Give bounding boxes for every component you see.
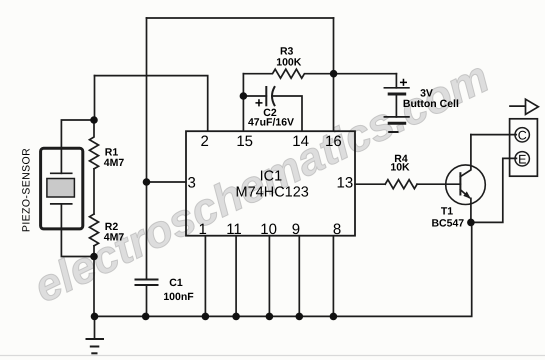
watermark electroschematics.com bbox=[27, 53, 495, 309]
pin numbers top bbox=[188, 133, 354, 238]
svg-text:+: + bbox=[399, 74, 407, 90]
wire piezo bottom bbox=[61, 229, 94, 257]
wire pin13 to R4 bbox=[355, 183, 385, 185]
wire collector to C terminal bbox=[471, 134, 516, 136]
svg-text:14: 14 bbox=[292, 133, 309, 150]
resistor R4 bbox=[385, 180, 417, 189]
svg-text:Button Cell: Button Cell bbox=[403, 98, 459, 110]
junction node R3/battery/pin16 bbox=[330, 70, 338, 78]
svg-text:100K: 100K bbox=[276, 56, 302, 68]
wire pin15 vertical bbox=[242, 74, 244, 131]
svg-text:47uF/16V: 47uF/16V bbox=[248, 116, 294, 128]
wire R2 to ground rail bbox=[93, 246, 95, 317]
wire top rail bbox=[147, 17, 334, 19]
svg-text:BC547: BC547 bbox=[431, 218, 464, 230]
svg-text:15: 15 bbox=[236, 133, 253, 150]
capacitor C1 bbox=[136, 279, 158, 281]
junction nodes ground rail bbox=[91, 313, 99, 321]
transistor collector bbox=[460, 135, 471, 177]
capacitor C2 left plate bbox=[265, 87, 267, 105]
svg-text:IC1: IC1 bbox=[260, 168, 283, 184]
svg-text:11: 11 bbox=[226, 221, 242, 238]
piezo internal bottom electrode bbox=[51, 203, 72, 205]
wire piezo top to box bbox=[61, 120, 94, 148]
wire left long vertical (top rail to C1) bbox=[146, 18, 148, 279]
ground symbol bbox=[94, 316, 96, 339]
capacitor C2 branch wire bbox=[243, 95, 266, 97]
svg-text:13: 13 bbox=[337, 175, 354, 192]
svg-text:10: 10 bbox=[260, 221, 277, 238]
connector box bbox=[510, 119, 538, 176]
svg-text:E: E bbox=[518, 152, 526, 166]
svg-text:C1: C1 bbox=[169, 277, 183, 289]
svg-text:10K: 10K bbox=[390, 161, 410, 173]
svg-text:+: + bbox=[255, 95, 263, 111]
IC1 body bbox=[186, 131, 355, 236]
svg-text:100nF: 100nF bbox=[163, 291, 194, 303]
junction node C2/pin15 bbox=[240, 92, 248, 100]
svg-text:PIEZO-SENSOR: PIEZO-SENSOR bbox=[21, 148, 33, 232]
ground rail bbox=[93, 222, 472, 316]
wire C2 to pin14 bbox=[272, 96, 302, 131]
svg-text:4M7: 4M7 bbox=[104, 157, 125, 169]
terminal E circle bbox=[515, 152, 529, 166]
piezo sensor body bbox=[41, 148, 83, 229]
junction node piezo/R2 bottom bbox=[90, 253, 98, 261]
capacitor C2 curved plate bbox=[272, 87, 275, 105]
svg-text:C: C bbox=[518, 128, 527, 142]
junction node pin3/C1 bbox=[143, 178, 151, 186]
wire piezo top branch bbox=[94, 76, 96, 120]
wire emitter down to junction bbox=[470, 198, 472, 222]
output arrow bbox=[510, 105, 526, 107]
transistor T1 circle bbox=[446, 165, 486, 205]
wire E terminal path bbox=[471, 158, 517, 222]
resistor R1 bbox=[90, 120, 99, 169]
battery 3V cell plates bbox=[384, 87, 409, 89]
svg-text:8: 8 bbox=[333, 221, 341, 238]
bottom border line bbox=[0, 355, 545, 357]
wire pin2 horizontal bbox=[95, 76, 208, 131]
transistor base bar bbox=[459, 173, 461, 194]
piezo internal top electrode bbox=[60, 148, 62, 173]
svg-text:9: 9 bbox=[292, 221, 300, 238]
wire C1 to ground rail bbox=[146, 285, 148, 316]
svg-text:T1: T1 bbox=[441, 206, 453, 218]
piezo crystal element bbox=[47, 179, 75, 198]
junction node emitter bbox=[467, 219, 475, 227]
battery feed wire bbox=[395, 74, 397, 88]
svg-text:1: 1 bbox=[199, 221, 207, 238]
wires IC bottom pins to ground rail bbox=[204, 236, 206, 317]
svg-text:16: 16 bbox=[325, 133, 342, 150]
resistor R3 with wires bbox=[243, 69, 396, 78]
battery minus dash bbox=[389, 131, 397, 133]
svg-text:M74HC123: M74HC123 bbox=[236, 184, 309, 200]
svg-text:2: 2 bbox=[201, 133, 209, 150]
wire R1 to R2 bbox=[93, 169, 95, 214]
wire pin16 vertical bbox=[333, 18, 335, 131]
resistor R2 bbox=[90, 214, 99, 246]
wire pin3 branch bbox=[147, 181, 186, 183]
svg-text:4M7: 4M7 bbox=[104, 231, 125, 243]
junction node piezo/R1 top bbox=[90, 116, 98, 124]
terminal C circle bbox=[515, 128, 529, 142]
wire R4 to transistor base bbox=[417, 183, 460, 185]
svg-text:3: 3 bbox=[188, 175, 196, 192]
transistor emitter bbox=[460, 190, 469, 198]
